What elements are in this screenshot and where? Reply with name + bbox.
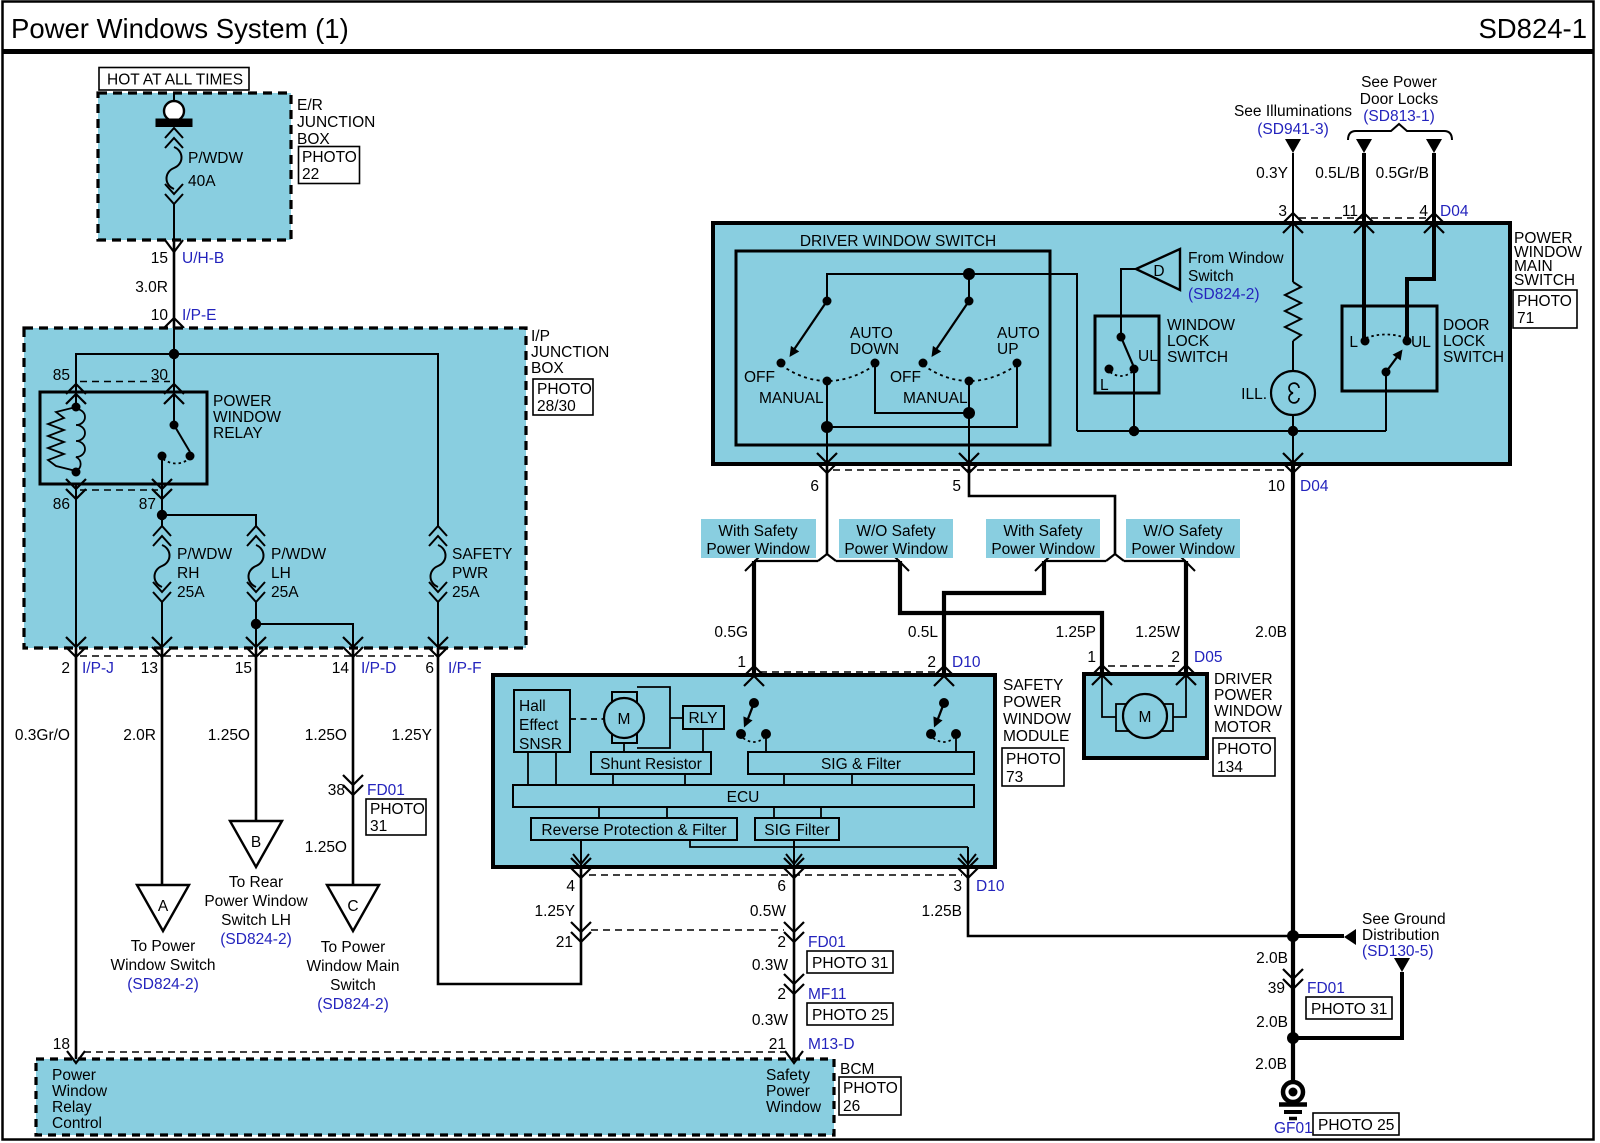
wire window lock to ill bus [1133, 369, 1135, 431]
door lock switch name [1443, 317, 1504, 366]
arrow from ground distribution [1394, 958, 1410, 972]
svg-text:M: M [618, 711, 631, 728]
resistor ILL [1285, 282, 1301, 341]
branch wire to 1.25W [1124, 560, 1186, 562]
svg-text:2: 2 [777, 986, 786, 1003]
svg-text:(SD824-2): (SD824-2) [1188, 286, 1260, 303]
svg-text:Window Main: Window Main [306, 958, 399, 975]
svg-text:6: 6 [425, 660, 434, 677]
svg-text:POWER: POWER [213, 393, 272, 410]
svg-text:PHOTO 31: PHOTO 31 [1311, 1001, 1387, 1018]
option tick 1.25W [1180, 556, 1195, 571]
svg-text:W/O Safety: W/O Safety [856, 523, 935, 540]
svg-text:PHOTO: PHOTO [1006, 751, 1061, 768]
svg-text:1.25Y: 1.25Y [391, 727, 432, 744]
svg-text:Switch: Switch [330, 977, 376, 994]
svg-text:3: 3 [1278, 203, 1287, 220]
svg-text:UP: UP [997, 341, 1019, 358]
svg-text:1.25Y: 1.25Y [534, 903, 575, 920]
svg-text:DRIVER WINDOW SWITCH: DRIVER WINDOW SWITCH [800, 233, 996, 250]
connector 2 FD01 [777, 922, 846, 951]
svg-text:RLY: RLY [688, 710, 717, 727]
wire ground distribution branch [1293, 972, 1402, 1038]
svg-text:2.0B: 2.0B [1256, 950, 1288, 967]
svg-text:C: C [347, 898, 358, 915]
svg-text:ECU: ECU [727, 789, 760, 806]
label box w/o safety power window 2 [1126, 519, 1240, 558]
svg-text:25A: 25A [177, 584, 205, 601]
svg-text:AUTO: AUTO [850, 325, 893, 342]
wire bus to pin 85 and safety fuse [76, 354, 438, 526]
svg-text:BOX: BOX [531, 360, 564, 377]
svg-text:1: 1 [1087, 649, 1096, 666]
svg-text:P/WDW: P/WDW [271, 546, 326, 563]
pin 87 [139, 479, 172, 513]
option tick 0.5L [894, 556, 909, 571]
module pin 6 [777, 858, 804, 895]
svg-text:WINDOW: WINDOW [1003, 711, 1071, 728]
arrow from door locks right [1426, 139, 1442, 153]
svg-text:1.25O: 1.25O [305, 839, 347, 856]
relay coil with resistor [48, 403, 85, 477]
wire pin 87 to fuses [162, 484, 256, 526]
svg-text:SIG Filter: SIG Filter [764, 822, 829, 839]
label box with safety power window 2 [986, 519, 1100, 558]
svg-text:0.5L: 0.5L [908, 624, 939, 641]
photo ref PHOTO 25 (MF11) [807, 1003, 893, 1025]
pin 86 [53, 479, 86, 513]
svg-text:MF11: MF11 [808, 986, 846, 1003]
svg-text:0.5Gr/B: 0.5Gr/B [1376, 165, 1429, 182]
triangle A to power window switch [110, 885, 215, 993]
option tick 1.25P [1035, 556, 1050, 571]
pin 30 [151, 367, 184, 404]
branch wire to 0.5L [836, 560, 900, 562]
dashed connector row motor top [1108, 665, 1180, 667]
wire 1.25Y I/P-F to module pin 4 [438, 648, 581, 984]
wire rpf to sig bus [690, 840, 968, 847]
see ground distribution label [1362, 911, 1446, 960]
svg-text:To Power: To Power [131, 938, 196, 955]
sig filter box [755, 818, 839, 840]
svg-text:SAFETY: SAFETY [1003, 677, 1063, 694]
svg-text:0.3W: 0.3W [752, 1012, 789, 1029]
svg-text:From Window: From Window [1188, 250, 1284, 267]
connector 21 FD01 left [556, 922, 591, 951]
wire rly to shunt [702, 729, 704, 752]
svg-text:10: 10 [151, 307, 169, 324]
svg-text:PHOTO: PHOTO [1517, 293, 1572, 310]
svg-text:0.3Y: 0.3Y [1256, 165, 1288, 182]
hall effect sensor box [514, 690, 570, 753]
svg-text:See Ground: See Ground [1362, 911, 1446, 928]
svg-text:4: 4 [566, 878, 575, 895]
svg-text:SWITCH: SWITCH [1167, 349, 1228, 366]
relay RLY box [683, 706, 724, 729]
pin 13 [141, 637, 172, 677]
svg-text:18: 18 [53, 1036, 70, 1053]
ground GF01 [1274, 1082, 1313, 1137]
motor pin 1 [1087, 649, 1112, 685]
wire I/P-E feed to relay pin 30 [173, 328, 175, 425]
svg-text:0.5W: 0.5W [750, 903, 787, 920]
svg-text:PHOTO 25: PHOTO 25 [1318, 1117, 1394, 1134]
wire 1.25O to triangle B [255, 648, 258, 821]
svg-text:LOCK: LOCK [1443, 333, 1486, 350]
switch 2 auto up [919, 297, 1022, 386]
see illuminations label [1234, 103, 1352, 138]
reverse protection and filter box [531, 818, 737, 840]
svg-text:(SD824-2): (SD824-2) [317, 996, 389, 1013]
svg-text:JUNCTION: JUNCTION [297, 114, 375, 131]
pin 85 [53, 367, 86, 404]
svg-text:RELAY: RELAY [213, 425, 263, 442]
svg-text:MOTOR: MOTOR [1214, 719, 1271, 736]
svg-text:PHOTO: PHOTO [537, 381, 592, 398]
pin 2 I/P-J [61, 637, 114, 677]
node lamp output [1288, 426, 1298, 436]
svg-text:2.0R: 2.0R [123, 727, 156, 744]
wire 1.25W to motor pin 2 [1184, 561, 1188, 674]
wire module pin 3 to ground bus [968, 867, 1293, 936]
wire sig filter to pin 6 [793, 840, 795, 867]
svg-text:Window Switch: Window Switch [110, 957, 215, 974]
svg-text:UL: UL [1138, 348, 1158, 365]
svg-text:FD01: FD01 [1307, 980, 1345, 997]
svg-text:1.25O: 1.25O [305, 727, 347, 744]
wire 0.5L/B [1362, 153, 1366, 341]
svg-text:WINDOW: WINDOW [1167, 317, 1235, 334]
svg-text:Power Window: Power Window [1131, 541, 1235, 558]
svg-text:OFF: OFF [744, 369, 775, 386]
label box w/o safety power window 1 [839, 519, 953, 558]
safety power window module box [493, 675, 995, 867]
svg-text:PHOTO: PHOTO [302, 149, 357, 166]
wire rpf to pin 4 [580, 840, 582, 867]
pin 11 [1342, 203, 1374, 233]
svg-text:Relay: Relay [52, 1099, 92, 1116]
photo ref PHOTO 31 (FD01 39) [1306, 997, 1392, 1019]
wire 0.5G to module pin 1 [752, 561, 756, 676]
svg-text:2: 2 [777, 934, 786, 951]
svg-text:D10: D10 [952, 654, 981, 671]
pin 6 I/P-F [425, 637, 481, 677]
wire to switch2 pivot [968, 274, 970, 301]
module name SAFETY POWER WINDOW MODULE [1003, 677, 1071, 745]
connector 21 M13-D [769, 1036, 855, 1063]
svg-text:1: 1 [737, 654, 746, 671]
dashed connector row FD01 [591, 929, 784, 931]
svg-text:BOX: BOX [297, 131, 330, 148]
svg-text:Window: Window [766, 1099, 822, 1116]
connector 38 FD01 [328, 775, 405, 799]
module switch 2 [926, 698, 961, 752]
power window relay box [40, 392, 207, 484]
svg-text:2.0B: 2.0B [1256, 1014, 1288, 1031]
svg-text:MANUAL: MANUAL [903, 390, 968, 407]
svg-text:A: A [158, 898, 169, 915]
BCM safety power window label [766, 1067, 822, 1116]
svg-text:Shunt Resistor: Shunt Resistor [600, 756, 702, 773]
connector pin 15 U/H-B [151, 240, 224, 267]
window lock switch box [1095, 316, 1159, 393]
node pin5 branch [963, 407, 975, 419]
I/P junction box [24, 328, 526, 648]
arrow exit pin 3 [960, 854, 976, 864]
svg-text:0.3W: 0.3W [752, 957, 789, 974]
wire 1.25P to module pin 2 [944, 561, 1044, 676]
svg-text:PHOTO: PHOTO [843, 1080, 898, 1097]
svg-text:MODULE: MODULE [1003, 728, 1069, 745]
driver motor name DRIVER POWER WINDOW MOTOR [1214, 671, 1282, 736]
svg-text:21: 21 [769, 1036, 786, 1053]
svg-text:85: 85 [53, 367, 70, 384]
module pin 1 [737, 654, 764, 686]
svg-text:MANUAL: MANUAL [759, 390, 824, 407]
svg-text:(SD813-1): (SD813-1) [1363, 108, 1435, 125]
svg-text:POWER: POWER [1214, 687, 1273, 704]
dashed connector row main switch bottom [833, 469, 1287, 471]
node ground branch [1287, 1032, 1299, 1044]
svg-text:Window: Window [52, 1083, 108, 1100]
wire resistor to lamp [1292, 341, 1294, 372]
svg-text:73: 73 [1006, 769, 1023, 786]
window lock switch contact [1100, 333, 1158, 395]
svg-text:6: 6 [810, 478, 819, 495]
fuse SAFETY PWR 25A [429, 526, 512, 648]
svg-text:2.0B: 2.0B [1255, 1056, 1287, 1073]
pin 3 [1278, 203, 1303, 233]
pin 15 [235, 637, 266, 677]
svg-text:U/H-B: U/H-B [182, 250, 224, 267]
svg-text:Reverse Protection & Filter: Reverse Protection & Filter [541, 822, 726, 839]
arrow to ground distribution [1344, 929, 1356, 945]
svg-text:L: L [1100, 377, 1109, 394]
wire branch to pin 14 [256, 624, 353, 648]
svg-text:POWER: POWER [1003, 694, 1062, 711]
node I/P-E junction [169, 349, 179, 359]
dashed pin row bottom of I/P box [80, 655, 434, 657]
svg-text:15: 15 [235, 660, 252, 677]
svg-text:With Safety: With Safety [1003, 523, 1082, 540]
svg-text:FD01: FD01 [808, 934, 846, 951]
svg-text:14: 14 [332, 660, 350, 677]
fuse P/WDW RH 25A [153, 526, 232, 648]
svg-text:LOCK: LOCK [1167, 333, 1210, 350]
svg-text:3.0R: 3.0R [135, 279, 168, 296]
svg-text:HOT AT ALL TIMES: HOT AT ALL TIMES [107, 72, 243, 89]
option tick 0.5G [745, 556, 760, 571]
window lock switch name [1167, 317, 1235, 366]
module pin 2 D10 [927, 654, 980, 686]
wire U/H-B to I/P-E [173, 240, 176, 328]
E/R junction box name [297, 97, 375, 148]
svg-text:10: 10 [1268, 478, 1286, 495]
svg-text:DRIVER: DRIVER [1214, 671, 1273, 688]
ECU box [513, 785, 974, 807]
arrow from door locks left [1356, 139, 1372, 153]
svg-text:JUNCTION: JUNCTION [531, 344, 609, 361]
connector 2 MF11 [777, 974, 846, 1003]
module switch 1 [736, 698, 771, 752]
svg-text:RH: RH [177, 565, 199, 582]
svg-text:WINDOW: WINDOW [213, 409, 281, 426]
split pin 5 branches [1106, 554, 1124, 561]
node pin6 branch [821, 421, 833, 433]
BCM box [36, 1059, 834, 1135]
svg-text:Power Window: Power Window [204, 893, 308, 910]
svg-text:21: 21 [556, 934, 573, 951]
switch 1 labels [744, 325, 899, 407]
arrow exit pin 6 [786, 854, 802, 864]
svg-text:Power Windows System (1): Power Windows System (1) [11, 13, 349, 44]
svg-text:DOOR: DOOR [1443, 317, 1490, 334]
svg-text:22: 22 [302, 166, 319, 183]
wire auto up to pin 6 [827, 363, 1017, 427]
node ground bus [1287, 930, 1299, 942]
wire 0.5Gr/B [1407, 153, 1434, 341]
dashed connector row module bottom [589, 874, 962, 876]
triangle D from window switch [1136, 249, 1180, 290]
svg-text:31: 31 [370, 818, 387, 835]
title divider bar [2, 49, 1595, 54]
svg-text:See Power: See Power [1361, 74, 1437, 91]
wire motor to shunt [623, 743, 625, 752]
node LH fuse branch [251, 619, 261, 629]
pin 6 bottom [810, 453, 837, 495]
photo ref PHOTO 134 [1213, 738, 1275, 776]
pin 5 bottom [952, 453, 979, 495]
svg-text:13: 13 [141, 660, 158, 677]
svg-text:BCM: BCM [840, 1061, 874, 1078]
E/R junction box [98, 93, 291, 240]
relay switch contact [158, 421, 195, 485]
svg-text:P/WDW: P/WDW [177, 546, 232, 563]
connector pin 10 I/P-E [151, 307, 217, 338]
from window switch label [1188, 250, 1284, 303]
module motor M [604, 692, 644, 743]
svg-text:I/P: I/P [531, 328, 550, 345]
photo ref PHOTO 25 (GF01) [1313, 1113, 1399, 1135]
svg-text:40A: 40A [188, 173, 216, 190]
svg-text:D: D [1153, 263, 1164, 280]
wire lamp to pin 10 [1292, 415, 1294, 464]
svg-text:SWITCH: SWITCH [1514, 272, 1575, 289]
sig and filter box [748, 752, 974, 774]
photo ref PHOTO 26 [839, 1077, 901, 1115]
node pin 87 split [157, 510, 167, 520]
svg-text:PHOTO: PHOTO [1217, 741, 1272, 758]
label box with safety power window 1 [701, 519, 816, 558]
svg-text:3: 3 [953, 878, 962, 895]
branch wire to 1.25P [1044, 560, 1106, 562]
svg-text:Switch LH: Switch LH [221, 912, 291, 929]
dashed connector row D04 top [1299, 217, 1428, 219]
driver power window motor box [1084, 674, 1207, 758]
door lock switch box [1342, 306, 1437, 391]
svg-text:I/P-F: I/P-F [448, 660, 482, 677]
wire 0.3Gr/O pin2 to BCM pin 18 [75, 648, 78, 1059]
wire auto down to pin 5 [875, 363, 969, 413]
svg-text:25A: 25A [271, 584, 299, 601]
svg-text:1.25W: 1.25W [1135, 624, 1180, 641]
driver motor symbol [1102, 676, 1186, 738]
svg-text:To Power: To Power [321, 939, 386, 956]
wires hall to ecu [528, 752, 556, 785]
svg-text:M: M [1139, 709, 1152, 726]
switch 1 auto down [777, 297, 880, 386]
wire manual2 to pin 5 [968, 381, 970, 464]
wire bus to pin 3 [967, 847, 969, 867]
svg-text:PHOTO 31: PHOTO 31 [812, 955, 888, 972]
shunt resistor box [591, 752, 711, 774]
svg-text:To Rear: To Rear [229, 874, 283, 891]
node common feed [963, 268, 975, 280]
svg-text:87: 87 [139, 496, 156, 513]
svg-text:W/O Safety: W/O Safety [1143, 523, 1222, 540]
svg-text:SWITCH: SWITCH [1443, 349, 1504, 366]
wires shunt to ecu [613, 774, 685, 785]
svg-text:E/R: E/R [297, 97, 323, 114]
svg-text:Power Window: Power Window [706, 541, 810, 558]
svg-text:(SD130-5): (SD130-5) [1362, 943, 1434, 960]
svg-text:GF01: GF01 [1274, 1120, 1313, 1137]
pin 14 I/P-D [332, 637, 397, 677]
svg-text:Control: Control [52, 1115, 102, 1132]
svg-text:Power: Power [766, 1083, 810, 1100]
lamp ILL [1241, 371, 1315, 415]
wire manual1 to pin 6 [826, 381, 828, 464]
dashed connector row module top [760, 671, 938, 673]
wire door lock pivot to ill bus [1385, 372, 1387, 431]
svg-text:28/30: 28/30 [537, 398, 576, 415]
switch 2 labels [890, 325, 1040, 407]
door lock switch contact [1349, 334, 1431, 377]
branch wire to 0.5G [754, 560, 818, 562]
wire 0.5L to motor pin 1 [900, 561, 1102, 674]
svg-text:2: 2 [927, 654, 936, 671]
svg-text:0.5G: 0.5G [714, 624, 748, 641]
wire pin 5 to split [969, 464, 1115, 554]
svg-text:1.25O: 1.25O [208, 727, 250, 744]
wire 2.0R to triangle A [161, 648, 164, 885]
photo ref PHOTO 28/30 [533, 379, 593, 415]
svg-text:D05: D05 [1194, 649, 1222, 666]
brace for door locks wires [1348, 124, 1452, 140]
wires sig filter to ecu [784, 774, 852, 785]
svg-text:PHOTO: PHOTO [370, 801, 425, 818]
svg-text:(SD941-3): (SD941-3) [1257, 121, 1329, 138]
svg-text:1.25P: 1.25P [1055, 624, 1096, 641]
svg-text:I/P-D: I/P-D [361, 660, 396, 677]
wire pin 6 to split [826, 464, 829, 554]
arrow exit pin 4 [573, 854, 589, 864]
wire pin 86 to I/P-J [75, 484, 77, 648]
svg-text:SAFETY: SAFETY [452, 546, 512, 563]
svg-text:15: 15 [151, 250, 168, 267]
connector 39 FD01 [1268, 969, 1345, 997]
fuse P/WDW 40A [156, 93, 244, 240]
svg-text:AUTO: AUTO [997, 325, 1040, 342]
main switch name POWER WINDOW MAIN SWITCH [1514, 230, 1582, 289]
wire 1.25O pin14 to triangle C [352, 648, 355, 885]
svg-text:M13-D: M13-D [808, 1036, 855, 1053]
wires ecu outputs [599, 807, 821, 818]
svg-text:LH: LH [271, 565, 291, 582]
svg-text:6: 6 [777, 878, 786, 895]
dashed connector row BCM top [84, 1051, 786, 1053]
photo ref PHOTO 31 (FD01 2) [807, 951, 893, 973]
